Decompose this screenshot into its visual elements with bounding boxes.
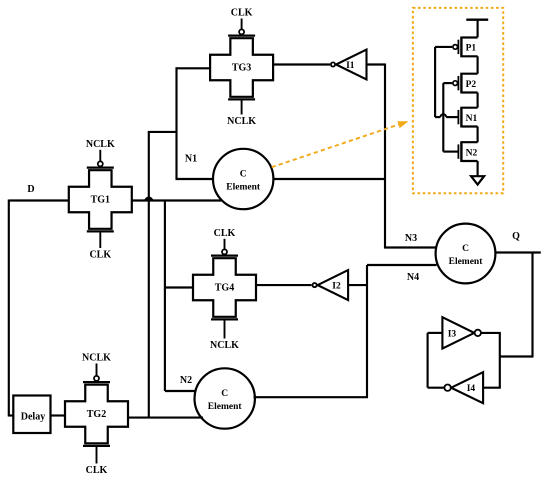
wire C element U1 output to riser	[273, 178, 385, 180]
wire TG3 output to inverter I1	[273, 63, 330, 65]
transmission gate TG3 with CLK top gate and NCLK bottom gate	[210, 8, 273, 128]
junction hop bump on TG1 output at vertical bus	[145, 197, 153, 199]
delay block Delay	[13, 396, 50, 434]
svg-text:N1: N1	[466, 114, 478, 124]
svg-text:TG4: TG4	[215, 283, 234, 294]
inset PMOS P2	[453, 73, 478, 94]
transmission gate TG2 with NCLK top gate and CLK bottom gate	[65, 353, 128, 477]
svg-text:Element: Element	[208, 402, 243, 412]
node N3 label	[405, 233, 417, 244]
wire vertical bus TG2 output up to N1 link	[148, 132, 150, 418]
svg-text:NCLK: NCLK	[210, 340, 239, 351]
wire I1 input from right riser	[367, 63, 386, 65]
svg-text:D: D	[27, 184, 34, 195]
wire N4 into C element U3	[367, 264, 437, 266]
wire latch right to I4 input	[483, 387, 501, 389]
wire D input to TG1	[9, 199, 69, 201]
wire C element U3 output Q	[495, 251, 540, 253]
svg-text:N2: N2	[466, 148, 478, 158]
svg-text:I3: I3	[448, 329, 457, 339]
svg-text:CLK: CLK	[214, 228, 236, 239]
inset gate bus P2-N2	[442, 83, 444, 152]
inset rail N1-N2	[477, 127, 479, 143]
wire bus to TG4 left arm	[164, 286, 193, 288]
wire TG1 output to C element U1	[132, 199, 222, 201]
wire D branch down to Delay	[8, 200, 14, 416]
node N4 label	[407, 272, 419, 283]
svg-text:P1: P1	[466, 44, 477, 54]
inset supply rail top bar	[466, 20, 488, 38]
svg-text:I4: I4	[467, 384, 476, 394]
svg-text:Delay: Delay	[21, 411, 45, 422]
inverter I3	[442, 317, 481, 348]
svg-text:N3: N3	[405, 233, 417, 244]
svg-text:CLK: CLK	[89, 250, 111, 261]
wire link bus to TG3 input column	[148, 131, 177, 133]
svg-text:TG3: TG3	[232, 63, 251, 74]
node N1 label	[185, 154, 197, 165]
wire I2 input from lower riser	[348, 284, 367, 286]
svg-text:NCLK: NCLK	[227, 116, 256, 127]
svg-text:TG1: TG1	[91, 195, 110, 206]
wire latch left vertical	[427, 333, 429, 388]
inset N2 gate wire	[443, 151, 458, 153]
transmission gate TG1 with NCLK top gate and CLK bottom gate	[69, 139, 132, 261]
inverter I2	[313, 270, 349, 300]
svg-text:CLK: CLK	[231, 8, 253, 19]
svg-text:P2: P2	[466, 80, 477, 90]
wire lower riser vertical (N4)	[366, 265, 368, 397]
wire TG3 left arm	[177, 67, 211, 69]
inset gate bus P1-N1	[434, 47, 436, 117]
wire I3 output to latch right	[481, 332, 501, 334]
wire latch right vertical	[499, 333, 501, 388]
svg-text:I2: I2	[332, 281, 341, 291]
inset rail P1-P2	[477, 56, 479, 73]
wire TG4 output to inverter I2	[256, 284, 312, 286]
node D input label	[27, 184, 34, 195]
inset NMOS N1	[458, 107, 477, 128]
svg-text:Element: Element	[449, 257, 484, 267]
node N2 label	[180, 375, 192, 386]
inset N1 gate wire with hop over P2/N2 bus	[435, 114, 458, 117]
dashed annotation arrow from C element U1 to transistor inset	[272, 121, 409, 167]
inset ground arrow	[471, 176, 484, 184]
wire N1 into C element U1	[176, 178, 214, 180]
svg-text:C: C	[462, 244, 469, 254]
svg-text:Element: Element	[226, 183, 261, 193]
wire I4 output to latch left	[428, 387, 445, 389]
inverter I4	[444, 372, 483, 403]
inset rail P2-N1	[477, 93, 479, 108]
inverter I1	[331, 50, 367, 80]
wire TG2 output to C element U2	[129, 417, 204, 419]
wire Delay output to TG2	[51, 414, 66, 416]
inset NMOS N2	[458, 141, 477, 162]
wire latch left to I3 input	[428, 332, 443, 334]
C element U1 (top)	[213, 149, 273, 209]
dashed inset box for C element internals	[413, 8, 503, 193]
transmission gate TG4 with CLK top gate and NCLK bottom gate	[193, 228, 256, 351]
wire Q feedback left to latch	[500, 355, 534, 357]
svg-text:CLK: CLK	[86, 465, 108, 476]
inset PMOS P1	[453, 37, 478, 58]
svg-text:NCLK: NCLK	[82, 353, 111, 364]
inset P1 gate wire	[435, 46, 452, 48]
svg-text:C: C	[221, 389, 228, 399]
wire Q feedback down	[531, 253, 533, 357]
wire right riser vertical (I1/N3)	[384, 64, 386, 248]
svg-text:N4: N4	[407, 272, 419, 283]
node Q output label	[512, 231, 520, 242]
svg-text:I1: I1	[346, 61, 355, 71]
C element U3 (output)	[436, 224, 496, 284]
wire TG3 input column vertical	[175, 67, 177, 179]
wire N3 into C element U3	[384, 246, 437, 248]
svg-text:C: C	[240, 170, 247, 180]
inset rail to ground	[477, 161, 479, 176]
C element U2 (bottom)	[195, 368, 255, 428]
svg-text:N1: N1	[185, 154, 197, 165]
inset P2 gate wire	[443, 82, 452, 84]
svg-text:TG2: TG2	[87, 409, 106, 420]
wire vertical bus from TG1 output down to TG4 and C element U2 (N2 side)	[165, 201, 196, 392]
svg-text:N2: N2	[180, 375, 192, 386]
svg-text:Q: Q	[512, 231, 520, 242]
svg-text:NCLK: NCLK	[86, 139, 115, 150]
wire C element U2 output to riser	[254, 396, 369, 398]
